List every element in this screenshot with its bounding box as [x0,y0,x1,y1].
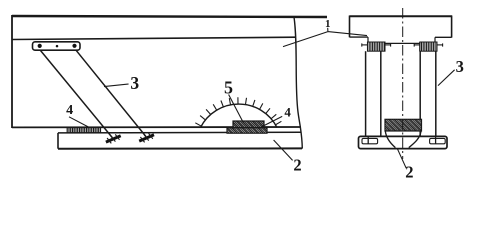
svg-text:3: 3 [456,57,464,76]
svg-text:2: 2 [405,163,413,182]
svg-text:4: 4 [284,104,291,119]
svg-text:2: 2 [293,155,301,174]
svg-text:4: 4 [66,103,73,118]
svg-text:3: 3 [130,73,139,93]
